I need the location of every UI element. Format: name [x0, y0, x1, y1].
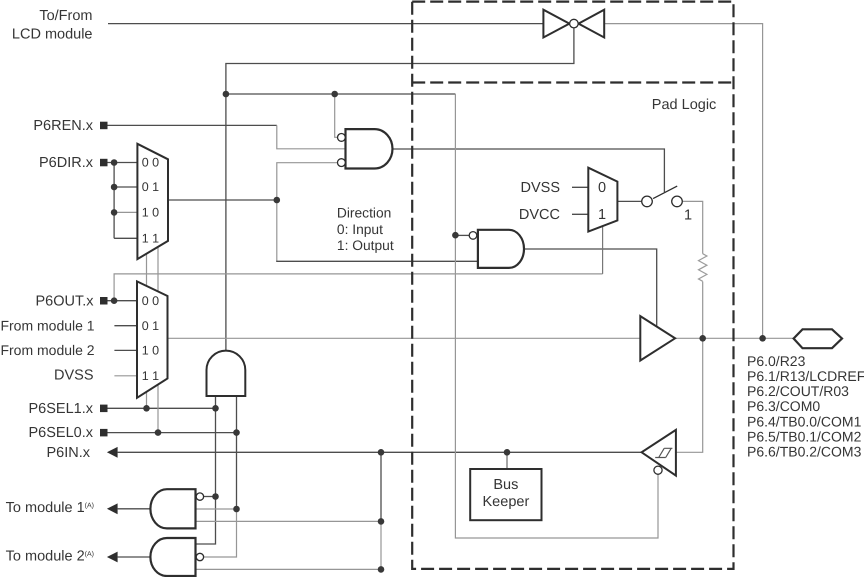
transmission gate left triangle: [543, 10, 569, 38]
port square P6REN.x: [100, 122, 108, 130]
label mux1 rows: [142, 156, 159, 246]
wire P6OUT feed to mux3 select: [114, 274, 602, 301]
wire To module 1 output: [118, 508, 151, 510]
wire mux1 output to direction AND U5 input: [276, 200, 278, 261]
wire mux2 select drop 1 to P6SEL1: [146, 392, 148, 409]
transmission gate circle: [570, 19, 579, 28]
svg-text:Pad Logic: Pad Logic: [652, 97, 717, 113]
svg-text:P6REN.x: P6REN.x: [33, 118, 93, 134]
svg-text:0 1: 0 1: [142, 319, 159, 333]
wire P6REN.x: [108, 124, 277, 126]
svg-text:Direction: Direction: [337, 206, 391, 221]
label pin names: [747, 353, 864, 459]
node mux1 row 10: [111, 209, 118, 216]
input buffer schmitt symbol: [655, 448, 672, 457]
arrow To module 2: [107, 552, 118, 563]
wire DVSS stub to mux3: [572, 186, 588, 188]
wire switch to resistor R1: [682, 201, 702, 253]
svg-text:1: 1: [598, 207, 606, 223]
wire mux2 select drop 0 to P6SEL0: [157, 385, 159, 433]
wires-dark: [108, 24, 665, 557]
wire P6SEL0.x: [108, 432, 237, 434]
mux3 pullup select: [588, 168, 617, 232]
NAND U1 top bubble: [338, 134, 346, 142]
AND U4 body: [150, 538, 195, 576]
wire AND U3 bubble link: [203, 496, 216, 498]
wire DVSS stub to mux2: [114, 375, 137, 377]
wire AND U2 input B from P6SEL0: [236, 396, 238, 509]
direction AND U5 body: [478, 230, 524, 268]
wire from module 2 stub: [114, 349, 137, 351]
svg-text:P6IN.x: P6IN.x: [46, 445, 90, 461]
wire P6IN branch vertical: [380, 452, 382, 521]
input buffer enable bubble: [654, 466, 662, 474]
svg-text:To module 2(A): To module 2(A): [6, 549, 94, 565]
svg-text:P6.0/R23: P6.0/R23: [747, 353, 806, 369]
wire P6REN jog into NAND U1 middle input: [277, 125, 346, 148]
NAND U1 body: [346, 129, 393, 168]
node P6SEL1 AND input: [212, 405, 219, 412]
node P6SEL1 mux select: [143, 405, 150, 412]
wire mux1 row 11 stub: [114, 237, 137, 239]
node P6IN branch: [378, 449, 385, 456]
wire mux3 select vertical: [602, 226, 604, 274]
svg-text:0 0: 0 0: [142, 294, 159, 308]
arrow P6IN.x: [107, 447, 118, 458]
svg-text:P6.5/TB0.1/COM2: P6.5/TB0.1/COM2: [747, 428, 862, 444]
port square P6SEL1.x: [100, 405, 108, 413]
svg-text:DVSS: DVSS: [54, 368, 94, 384]
wire P6OUT.x to mux row 00: [108, 300, 138, 302]
mux1 P6DIR: [137, 144, 168, 259]
svg-text:From module 1: From module 1: [0, 318, 94, 334]
svg-text:P6.6/TB0.2/COM3: P6.6/TB0.2/COM3: [747, 443, 862, 459]
wire P6DIR.x to mux row 00: [108, 162, 138, 164]
wire mux2 output to output buffer: [168, 337, 641, 339]
svg-text:0: 0: [598, 180, 606, 196]
wire AND U4 bubble feed: [203, 509, 237, 557]
wire mux1 row 01 stub: [114, 186, 137, 188]
svg-text:1 1: 1 1: [142, 232, 159, 246]
wire input buffer enable path: [455, 94, 658, 538]
node NAND top feed: [331, 91, 338, 98]
svg-text:Bus: Bus: [493, 477, 518, 493]
wire P6SEL1.x: [108, 407, 216, 409]
wire P6IN.x: [118, 451, 642, 453]
AND U3 bubble: [196, 493, 203, 500]
pad logic dashed divider: [412, 81, 733, 83]
wire mux1 output: [168, 199, 277, 201]
node AND U3 bubble junction: [212, 493, 219, 500]
NAND U1 bottom bubble: [338, 159, 346, 167]
wire mux3 output to switch contact: [617, 200, 641, 202]
wire AND U4 input C from pad: [196, 568, 382, 570]
svg-text:P6.4/TB0.0/COM1: P6.4/TB0.0/COM1: [747, 413, 862, 429]
bus keeper box: [470, 469, 541, 520]
AND U4 bubble: [196, 553, 203, 560]
pad logic dashed box: [412, 2, 733, 569]
wire To module 2 output: [118, 556, 151, 558]
mux2 P6OUT: [137, 281, 168, 397]
node pad to transmission gate: [759, 335, 766, 342]
wire NAND U1 top bubble feed: [335, 94, 338, 137]
transmission gate right triangle: [579, 10, 605, 38]
node AND U3 input C branch: [378, 518, 385, 525]
node enable branch: [223, 91, 230, 98]
node P6SEL0 mux select: [155, 429, 162, 436]
wire mux1 select stub 1: [146, 254, 148, 286]
wire AND U2 input A from P6SEL1: [196, 396, 216, 544]
svg-text:From module 2: From module 2: [0, 342, 94, 358]
port square P6OUT.x: [100, 297, 108, 305]
svg-text:0 1: 0 1: [142, 180, 159, 194]
wire direction AND input from mux1: [276, 260, 478, 262]
wire NAND U1 bottom bubble feed from mux1 output: [277, 163, 338, 200]
wire from module 1 stub: [114, 325, 137, 327]
wire NAND U1 output to switch: [392, 149, 664, 192]
svg-text:0 0: 0 0: [142, 156, 159, 170]
node P6DIR: [111, 159, 118, 166]
svg-text:P6SEL1.x: P6SEL1.x: [29, 401, 94, 417]
node mux1 output branch: [274, 197, 281, 204]
switch contact circle 1: [642, 196, 653, 207]
node bus keeper tap: [504, 449, 511, 456]
node mux1 row 01: [111, 184, 118, 191]
node enable tap: [452, 232, 459, 239]
svg-text:P6.1/R13/LCDREF: P6.1/R13/LCDREF: [747, 368, 864, 384]
node P6SEL0 AND input: [233, 429, 240, 436]
AND U3 body: [150, 489, 195, 528]
svg-text:P6DIR.x: P6DIR.x: [39, 155, 94, 171]
wires-gray: [114, 24, 795, 570]
wire resistor R1 to pad and input buffer: [676, 282, 703, 453]
switch contact circle 2: [672, 196, 683, 207]
pad hexagon: [794, 329, 842, 348]
svg-text:Keeper: Keeper: [483, 494, 530, 510]
svg-text:1 1: 1 1: [142, 369, 159, 383]
AND U2 body: [207, 351, 246, 396]
wire transmission gate to pad: [604, 24, 762, 339]
wire AND U3 input B from P6SEL0: [196, 508, 237, 510]
svg-text:1: Output: 1: Output: [337, 238, 394, 253]
svg-text:P6.2/COUT/R03: P6.2/COUT/R03: [747, 383, 849, 399]
switch blade: [653, 186, 677, 199]
node pad to resistor: [699, 335, 706, 342]
svg-text:P6OUT.x: P6OUT.x: [35, 293, 94, 309]
solids: [100, 122, 118, 563]
node AND U4 input C corner: [378, 566, 385, 573]
svg-text:P6.3/COM0: P6.3/COM0: [747, 398, 820, 414]
port square P6DIR.x: [100, 159, 108, 167]
svg-text:1 0: 1 0: [142, 344, 159, 358]
input buffer schmitt triangle: [642, 430, 676, 476]
wire mux1 select stub 0: [157, 247, 159, 292]
node P6OUT: [111, 297, 118, 304]
node AND U3 input B junction: [233, 506, 240, 513]
wire output buffer to pad: [675, 337, 795, 339]
wire AND U3 input C from pad: [196, 520, 382, 522]
wire LCD module to transmission gate: [108, 23, 543, 25]
wire bus keeper drop: [506, 452, 508, 469]
svg-text:LCD module: LCD module: [12, 26, 93, 42]
direction AND U5 bubble: [469, 232, 477, 240]
wire P6DIR chain vertical: [113, 163, 115, 239]
wire DVCC stub to mux3: [572, 213, 588, 215]
svg-text:1: 1: [684, 208, 692, 224]
svg-text:DVCC: DVCC: [519, 207, 560, 223]
svg-text:0: Input: 0: Input: [337, 222, 383, 237]
wire enable branch at y=94: [226, 93, 456, 95]
arrow To module 1: [107, 503, 118, 514]
svg-text:To/From: To/From: [39, 8, 92, 24]
wire direction AND U5 output to buffer enable: [524, 249, 657, 327]
svg-text:1 0: 1 0: [142, 206, 159, 220]
svg-text:P6SEL0.x: P6SEL0.x: [29, 425, 94, 441]
svg-text:DVSS: DVSS: [521, 180, 561, 196]
wire P6IN branch lower: [380, 521, 382, 569]
resistor R1 zigzag: [699, 254, 707, 282]
wire enable tap to direction AND bubble: [455, 234, 469, 236]
label mux2 rows: [142, 294, 159, 383]
wire transmission gate enable from AND output: [226, 28, 574, 351]
wire mux1 row 10 stub: [114, 211, 137, 213]
svg-text:To module 1(A): To module 1(A): [6, 500, 94, 516]
output buffer triangle: [640, 316, 675, 360]
port square P6SEL0.x: [100, 429, 108, 437]
